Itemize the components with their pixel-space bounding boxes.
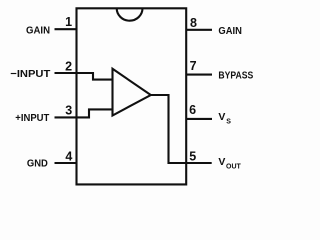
svg-text:−INPUT: −INPUT xyxy=(10,68,51,80)
wire pin7 BYPASS stub xyxy=(186,74,212,76)
svg-text:+INPUT: +INPUT xyxy=(15,112,50,124)
svg-text:V: V xyxy=(218,156,225,168)
wire pin2 -INPUT to op-amp inverting input xyxy=(55,73,113,80)
wire pin1 GAIN stub xyxy=(55,28,77,30)
svg-text:S: S xyxy=(226,118,231,125)
svg-text:2: 2 xyxy=(65,60,72,74)
svg-text:5: 5 xyxy=(189,150,196,164)
svg-text:OUT: OUT xyxy=(226,163,242,170)
svg-text:GAIN: GAIN xyxy=(26,24,50,36)
IC body U1 (DIP-8 outline) xyxy=(77,8,187,184)
wire op-amp output to pin5 VOUT xyxy=(151,95,212,163)
svg-text:GAIN: GAIN xyxy=(218,25,242,37)
svg-text:4: 4 xyxy=(65,150,72,164)
svg-text:7: 7 xyxy=(190,59,197,73)
op-amp A1 (amplifier triangle) xyxy=(113,69,151,116)
wire pin3 +INPUT to op-amp non-inverting input xyxy=(55,109,113,117)
wire pin4 GND stub xyxy=(55,162,77,164)
svg-text:3: 3 xyxy=(65,104,72,118)
wire pin8 GAIN stub xyxy=(186,29,212,31)
svg-text:1: 1 xyxy=(65,15,72,29)
svg-text:GND: GND xyxy=(27,158,48,170)
svg-text:6: 6 xyxy=(189,103,196,117)
svg-text:8: 8 xyxy=(190,16,197,30)
svg-text:BYPASS: BYPASS xyxy=(218,70,253,82)
svg-text:V: V xyxy=(218,111,225,123)
notch (pin-1 orientation notch) xyxy=(117,8,143,20)
wire pin6 VS stub xyxy=(186,118,212,120)
